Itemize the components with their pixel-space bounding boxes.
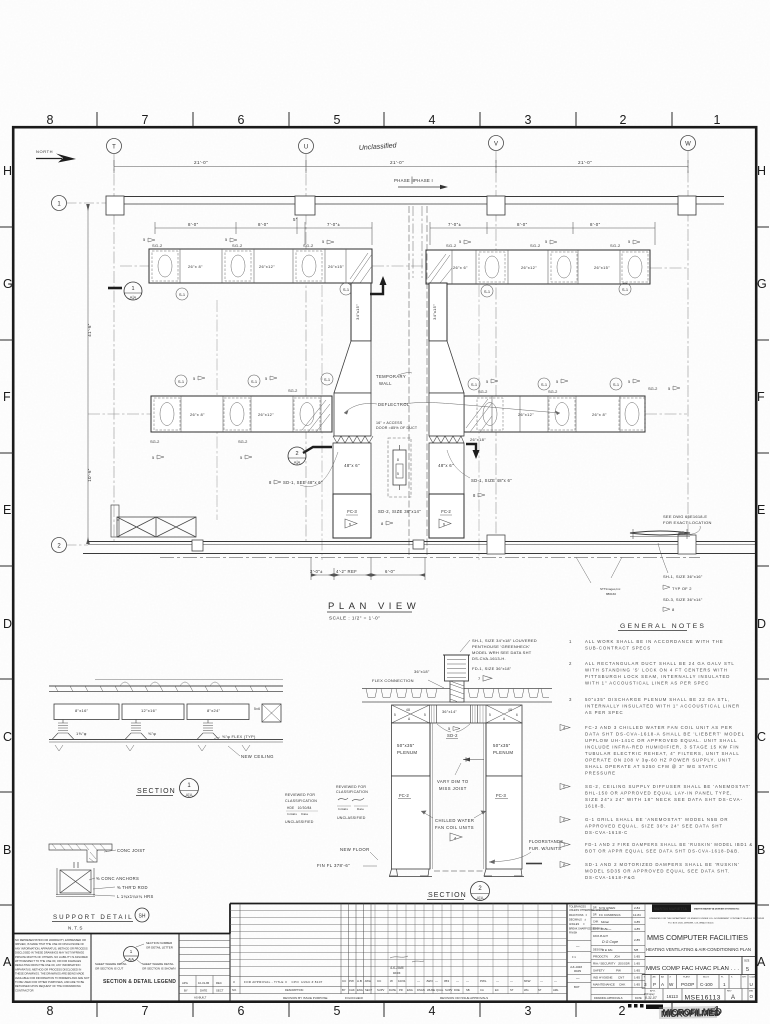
svg-text:FC CUMMINGS: FC CUMMINGS	[599, 913, 621, 917]
north arrow	[36, 149, 76, 163]
svg-text:6: 6	[238, 113, 245, 127]
svg-text:OPERATE ON 208 V 3φ-60 HZ POWE: OPERATE ON 208 V 3φ-60 HZ POWER SUPPLY. …	[585, 758, 732, 763]
svg-text:8: 8	[269, 480, 272, 485]
svg-text:SD-1, SIZE 48"x 6": SD-1, SIZE 48"x 6"	[471, 478, 512, 483]
svg-text:NORTH: NORTH	[36, 149, 53, 154]
svg-text:26"x18": 26"x18"	[470, 437, 486, 442]
svg-text:V: V	[494, 142, 498, 148]
svg-text:SG-2: SG-2	[648, 386, 658, 391]
svg-text:P.O. BOX 1505, DENVER, COLORAD: P.O. BOX 1505, DENVER, COLORADO 80201	[668, 922, 714, 925]
tiny stamp text	[600, 587, 621, 596]
access door note	[376, 421, 418, 430]
svg-text:W: W	[390, 979, 393, 983]
svg-text:26"x15": 26"x15"	[594, 265, 610, 270]
svg-text:—: —	[417, 979, 420, 983]
svg-text:DATE: DATE	[389, 988, 396, 992]
upper-left supply duct	[149, 249, 372, 283]
svg-text:SECTION: SECTION	[428, 892, 467, 899]
svg-text:1: 1	[131, 286, 134, 292]
svg-text:PLENUM: PLENUM	[397, 750, 417, 755]
svg-text:—: —	[435, 979, 438, 983]
svg-text:SCALE : 1/2" = 1'-0": SCALE : 1/2" = 1'-0"	[329, 616, 380, 621]
svg-text:1: 1	[723, 982, 726, 987]
svg-text:DS-CVA-1618-F&G: DS-CVA-1618-F&G	[585, 875, 636, 880]
GENERAL NOTES header	[618, 623, 706, 631]
svg-text:B: B	[757, 843, 765, 857]
svg-text:DISCLOSED IN THESE DRAWINGS MA: DISCLOSED IN THESE DRAWINGS MAY NOT INFR…	[15, 951, 84, 955]
note 6 flag	[560, 817, 570, 823]
svg-text:—: —	[510, 979, 513, 983]
svg-text:SD-2, SIZE 36"x14": SD-2, SIZE 36"x14"	[378, 509, 421, 514]
svg-text:1-85: 1-85	[634, 976, 640, 980]
diffusers upper-left duct	[152, 251, 322, 281]
svg-text:S-1: S-1	[484, 289, 491, 294]
svg-text:R E Mls: R E Mls	[602, 948, 613, 952]
svg-text:INTERNALLY INSULATED WITH 1" A: INTERNALLY INSULATED WITH 1" ACCOUSTICAL…	[585, 704, 740, 709]
svg-text:SG-2: SG-2	[152, 243, 163, 248]
svg-text:48: 48	[406, 708, 410, 712]
svg-text:PHASE II: PHASE II	[394, 178, 415, 183]
svg-text:SAFETY: SAFETY	[593, 969, 605, 973]
svg-text:ALL RECTANGULAR DUCT SHALL BE: ALL RECTANGULAR DUCT SHALL BE 24 GA GALV…	[585, 661, 735, 666]
section 2 cut marker in plan	[288, 447, 332, 465]
note 7 flag	[560, 842, 570, 848]
svg-text:Molan: Molan	[601, 920, 610, 924]
svg-text:ST: ST	[538, 988, 542, 992]
svg-text:REV: REV	[727, 991, 732, 993]
svg-text:FLOORSTANDS: FLOORSTANDS	[529, 839, 563, 844]
svg-text:FD-1 AND 2 FIRE DAMPERS SHALL: FD-1 AND 2 FIRE DAMPERS SHALL BE 'RUSKIN…	[585, 842, 753, 847]
svg-text:IMPLIED, IS MADE THAT THE USE: IMPLIED, IS MADE THAT THE USE OF DISCLOS…	[15, 942, 84, 946]
svg-text:A.B: A.B	[357, 979, 362, 983]
svg-text:WHSE: WHSE	[427, 988, 435, 992]
section 1 cut marker in plan	[108, 282, 142, 300]
svg-text:PITTSBURGH LOCK SEAM, INTERNAL: PITTSBURGH LOCK SEAM, INTERNALLY INSULAT…	[585, 674, 730, 679]
svg-text:3: 3	[525, 113, 532, 127]
svg-text:12-84: 12-84	[633, 913, 641, 917]
svg-text:UPFLOW UH-141C OR APPROVED EQU: UPFLOW UH-141C OR APPROVED EQUAL. UNIT S…	[585, 738, 737, 743]
svg-text:REVIEWED FOR: REVIEWED FOR	[336, 785, 366, 789]
svg-text:RIA / SECURITY: RIA / SECURITY	[593, 962, 616, 966]
grid numbers top	[47, 113, 721, 127]
svg-text:W: W	[685, 142, 691, 148]
svg-text:26"x 8": 26"x 8"	[592, 412, 607, 417]
svg-text:S-1: S-1	[613, 382, 620, 387]
svg-text:D: D	[757, 617, 766, 631]
svg-text:QUAL: QUAL	[436, 988, 444, 992]
column centerlines	[88, 151, 688, 560]
svg-text:E: E	[757, 503, 765, 517]
names column rows	[591, 911, 645, 1002]
svg-text:3-85: 3-85	[634, 920, 640, 924]
svg-text:SUPPORT DETAIL: SUPPORT DETAIL	[53, 914, 134, 921]
svg-text:26"x12": 26"x12"	[521, 265, 537, 270]
svg-text:4'-2" REF: 4'-2" REF	[336, 569, 357, 574]
svg-text:JWO: JWO	[426, 979, 433, 983]
svg-text:48"x 6": 48"x 6"	[438, 463, 454, 468]
svg-text:26"x 8": 26"x 8"	[190, 412, 205, 417]
svg-text:50"x35" DISCHARGE PLENUM SHALL: 50"x35" DISCHARGE PLENUM SHALL BE 22 GA …	[585, 697, 730, 702]
svg-text:SG-2: SG-2	[303, 243, 314, 248]
svg-text:PRESSURE: PRESSURE	[585, 771, 616, 776]
svg-text:RESULTING FROM THE USE OF, ANY: RESULTING FROM THE USE OF, ANY INFORMATI…	[15, 963, 80, 967]
svg-text:⅜ CONC ANCHORS: ⅜ CONC ANCHORS	[96, 876, 139, 881]
svg-text:W: W	[669, 982, 674, 987]
svg-text:STTImages,Inc: STTImages,Inc	[600, 587, 621, 591]
svg-text:DEFLECTROL: DEFLECTROL	[378, 402, 410, 407]
svg-text:26"x 6": 26"x 6"	[453, 265, 468, 270]
svg-text:ENG: ENG	[407, 988, 413, 992]
svg-text:S-1: S-1	[179, 292, 186, 297]
svg-text:REVISION BY ISSUE PURPOSE: REVISION BY ISSUE PURPOSE	[283, 996, 327, 1000]
svg-text:SECTION NUMBER: SECTION NUMBER	[146, 941, 172, 945]
svg-text:SD-2: SD-2	[447, 733, 458, 738]
svg-text:26"x12": 26"x12"	[258, 412, 274, 417]
svg-text:DRAWING APPROVALS: DRAWING APPROVALS	[594, 996, 623, 1000]
svg-text:DSGN: DSGN	[417, 988, 425, 992]
svg-text:BOT: BOT	[574, 985, 580, 989]
SD-1 note left	[269, 480, 323, 485]
svg-text:ENG: ENG	[593, 928, 598, 931]
svg-text:SEE DWG 65E1618-E: SEE DWG 65E1618-E	[663, 514, 707, 519]
note 5 flag	[560, 784, 570, 790]
svg-text:5": 5"	[293, 217, 298, 222]
svg-text:SUPV: SUPV	[445, 988, 453, 992]
svg-text:JDG/GDR: JDG/GDR	[618, 962, 630, 966]
svg-text:8-31-07: 8-31-07	[645, 996, 657, 1000]
svg-text:U: U	[750, 982, 753, 987]
SG-2 labels below lower-left duct	[150, 439, 248, 460]
plenum boxes	[392, 723, 523, 776]
svg-text:GENERAL NOTES: GENERAL NOTES	[620, 623, 706, 630]
svg-text:A: A	[731, 995, 735, 1001]
svg-text:CHK: CHK	[619, 983, 625, 987]
svg-text:7'-0"±: 7'-0"±	[448, 222, 461, 227]
svg-text:BY: BY	[342, 988, 346, 992]
svg-text:MISS JOIST: MISS JOIST	[439, 786, 467, 791]
svg-text:8: 8	[47, 1004, 54, 1018]
lower-left supply duct	[151, 396, 332, 432]
svg-text:WG: WG	[524, 988, 529, 992]
svg-text:THESE DRAWINGS. THE DRAWINGS A: THESE DRAWINGS. THE DRAWINGS ARE BEING M…	[15, 972, 84, 976]
svg-text:OR SECTION IS SHOWN: OR SECTION IS SHOWN	[142, 967, 175, 971]
classification stamp 1	[285, 793, 318, 824]
svg-text:5: 5	[397, 472, 399, 476]
SG-2 flag labels above upper ducts	[143, 237, 631, 248]
svg-text:5/8: 5/8	[634, 948, 639, 952]
svg-text:MODEL SD35 OR APPROVED EQUAL S: MODEL SD35 OR APPROVED EQUAL SEE DATA SH…	[585, 869, 730, 874]
svg-text:S-1: S-1	[251, 379, 258, 384]
diffusers lower-right duct	[477, 398, 645, 430]
svg-text:NO.: NO.	[232, 988, 237, 992]
svg-text:SG-2: SG-2	[610, 243, 621, 248]
svg-text:SH-1, SIZE 34"x18" LOUVERED: SH-1, SIZE 34"x18" LOUVERED	[472, 638, 537, 643]
svg-text:UNCLASSIFIED: UNCLASSIFIED	[285, 820, 314, 824]
revision entries row	[233, 979, 557, 984]
thick up arrow center top	[370, 276, 387, 294]
svg-text:MMS COMP FAC HVAC PLAN . . .: MMS COMP FAC HVAC PLAN . . .	[646, 966, 739, 972]
svg-text:SECT: SECT	[365, 988, 373, 992]
unit feet and floor	[389, 864, 542, 877]
svg-text:8: 8	[47, 113, 54, 127]
svg-text:MODEL WRH SEE DATA SHT: MODEL WRH SEE DATA SHT	[472, 650, 532, 655]
svg-text:OPERATED FOR THE DEPARTMENT OF: OPERATED FOR THE DEPARTMENT OF ENERGY UN…	[649, 917, 765, 920]
svg-text:SH: SH	[139, 914, 146, 920]
svg-text:CLASSIFICATION: CLASSIFICATION	[336, 790, 368, 794]
svg-text:NEW CEILING: NEW CEILING	[241, 754, 274, 759]
row grid circle 2	[52, 538, 67, 553]
revision header row	[232, 988, 559, 992]
svg-text:36"x14": 36"x14"	[442, 710, 457, 714]
svg-text:SHT: SHT	[742, 977, 747, 979]
svg-text:PW: PW	[349, 979, 354, 983]
note 2	[569, 661, 735, 686]
svg-text:SUB-CONTRACT SPECS: SUB-CONTRACT SPECS	[585, 646, 651, 651]
svg-text:WALL: WALL	[379, 381, 392, 386]
48x6 riser boxes	[333, 443, 464, 494]
revision table main	[230, 904, 567, 1002]
svg-text:AS PER SPEC: AS PER SPEC	[585, 710, 624, 715]
svg-text:—: —	[554, 979, 557, 983]
svg-text:H: H	[757, 164, 766, 178]
svg-text:886160: 886160	[606, 592, 616, 596]
svg-text:HDE 10/30/84: HDE 10/30/84	[287, 806, 312, 810]
svg-text:BY: BY	[184, 989, 188, 993]
svg-text:FAN COIL UNITS: FAN COIL UNITS	[435, 825, 474, 830]
fan coil unit boxes	[333, 494, 464, 538]
svg-text:SG-2: SG-2	[288, 388, 298, 393]
svg-text:PLANT: PLANT	[683, 976, 691, 979]
svg-text:C: C	[3, 730, 12, 744]
svg-text:MIN: MIN	[749, 991, 753, 993]
svg-text:C-100: C-100	[700, 982, 713, 987]
louvered penthouse	[443, 655, 470, 702]
svg-text:CONC JOIST: CONC JOIST	[117, 848, 146, 853]
svg-text:SG-2: SG-2	[548, 389, 558, 394]
svg-text:FUR. W/UNITS: FUR. W/UNITS	[529, 846, 561, 851]
svg-text:5: 5	[489, 713, 491, 717]
svg-text:6: 6	[516, 713, 518, 717]
svg-text:FC-3: FC-3	[347, 509, 357, 514]
conc joist section	[49, 844, 112, 862]
svg-text:10-31-86: 10-31-86	[198, 981, 210, 985]
svg-text:S-1: S-1	[622, 287, 629, 292]
svg-text:⅜ THR'D ROD: ⅜ THR'D ROD	[117, 885, 148, 890]
svg-text:B: B	[3, 843, 11, 857]
SD-1 note right	[471, 478, 512, 498]
svg-text:16" × ACCESS: 16" × ACCESS	[376, 421, 403, 425]
svg-text:1⅝"φ: 1⅝"φ	[76, 731, 87, 736]
top dimension line 21'-0" spans	[114, 160, 688, 173]
svg-text:21'-0": 21'-0"	[194, 160, 208, 165]
svg-text:CA: CA	[480, 988, 484, 992]
hanger rod and angle brace	[56, 862, 95, 897]
svg-text:4: 4	[429, 1004, 436, 1018]
svg-text:8: 8	[397, 458, 399, 462]
svg-text:SG-2: SG-2	[478, 389, 488, 394]
svg-text:⅝"φ: ⅝"φ	[148, 731, 156, 736]
support detail title	[52, 908, 149, 931]
svg-text:S-1: S-1	[471, 382, 478, 387]
svg-text:26"x12": 26"x12"	[518, 412, 534, 417]
svg-text:Initials: Initials	[338, 807, 348, 811]
svg-text:6'-0": 6'-0"	[385, 569, 395, 574]
unit top filter band	[392, 705, 523, 723]
small cells row	[642, 975, 755, 989]
temporary wall label	[376, 374, 406, 386]
svg-text:SD-1 AND 2 MOTORIZED DAMPERS S: SD-1 AND 2 MOTORIZED DAMPERS SHALL BE 'R…	[585, 862, 740, 867]
thick down arrow right of center	[466, 444, 480, 459]
svg-text:MARTIN MARIETTA: MARTIN MARIETTA	[654, 907, 687, 911]
grid letters left	[3, 164, 13, 969]
SD-2 label under band	[437, 724, 470, 732]
svg-text:12"x16": 12"x16"	[141, 708, 157, 713]
martin marietta logo	[649, 905, 765, 925]
svg-text:50"x35": 50"x35"	[397, 743, 415, 748]
bottom id row	[663, 989, 748, 1002]
fan coil boxes	[392, 776, 523, 869]
svg-text:8: 8	[473, 493, 476, 498]
svg-text:MMS COMPUTER FACILITIES: MMS COMPUTER FACILITIES	[647, 935, 748, 942]
svg-text:SHALL OPERATE AT 5250 CFM @ 3": SHALL OPERATE AT 5250 CFM @ 3" WG STATIC	[585, 764, 718, 769]
svg-text:—: —	[466, 979, 469, 983]
chilled water labels	[435, 818, 474, 830]
existing equipment crossed box	[111, 505, 196, 537]
svg-text:REVIEWED FOR: REVIEWED FOR	[285, 793, 315, 797]
roof joist deck	[362, 689, 552, 703]
note 1	[569, 639, 724, 651]
classification stamp 2	[336, 785, 368, 820]
svg-text:CHK: CHK	[593, 921, 599, 924]
svg-text:WITH RESPECT TO THE USE OF, OR: WITH RESPECT TO THE USE OF, OR FOR DAMAG…	[15, 959, 81, 963]
svg-text:SG-2: SG-2	[238, 439, 248, 444]
svg-text:1-85: 1-85	[634, 969, 640, 973]
svg-text:2-84: 2-84	[634, 906, 640, 910]
S-1 marker circles lower rows	[175, 373, 622, 390]
svg-text:L 1¼x1¼x¼ HRS: L 1¼x1¼x¼ HRS	[117, 894, 154, 899]
svg-text:FC-2: FC-2	[399, 793, 409, 798]
svg-text:SD-3, SIZE 36"x14": SD-3, SIZE 36"x14"	[663, 597, 703, 602]
svg-text:DS-CVA-1613-H.: DS-CVA-1613-H.	[472, 656, 506, 661]
svg-text:7: 7	[142, 113, 149, 127]
svg-text:REC: REC	[216, 981, 222, 985]
svg-text:3'-0"±: 3'-0"±	[310, 569, 323, 574]
see dwg note	[663, 514, 712, 525]
note 8 flag	[560, 862, 570, 868]
svg-text:TUBULAR ELECTRIC REHEAT, 4" FI: TUBULAR ELECTRIC REHEAT, 4" FILTERS, UNI…	[585, 751, 740, 756]
svg-text:TYP OF 2: TYP OF 2	[672, 586, 692, 591]
svg-text:PRIVATE RIGHTS OF OTHERS. NO L: PRIVATE RIGHTS OF OTHERS. NO LIABILITY I…	[15, 955, 88, 959]
svg-text:4-6-1946: 4-6-1946	[390, 966, 404, 970]
svg-text:8'-0": 8'-0"	[517, 222, 528, 227]
svg-text:50"x35": 50"x35"	[493, 743, 511, 748]
svg-text:CONTRACTOR: CONTRACTOR	[15, 988, 34, 992]
svg-text:8'-0": 8'-0"	[590, 222, 601, 227]
floorstands label	[529, 839, 563, 851]
svg-text:3: 3	[525, 1004, 532, 1018]
svg-text:JGA: JGA	[614, 955, 620, 959]
svg-text:A: A	[3, 955, 12, 969]
svg-text:—: —	[540, 979, 543, 983]
svg-text:DATE: DATE	[200, 989, 207, 993]
svg-text:SECT: SECT	[216, 989, 224, 993]
svg-text:T: T	[112, 145, 116, 151]
S-1 marker circles upper row	[176, 283, 631, 300]
svg-text:A: A	[757, 955, 766, 969]
svg-text:CLASSIFICATION: CLASSIFICATION	[285, 799, 317, 803]
svg-text:SD-1, SEE 48"x 6": SD-1, SEE 48"x 6"	[283, 480, 323, 485]
svg-text:F: F	[757, 390, 765, 404]
svg-text:48"x 6": 48"x 6"	[344, 463, 360, 468]
svg-text:3: 3	[644, 982, 647, 987]
svg-text:5: 5	[334, 113, 341, 127]
svg-text:26"x15": 26"x15"	[328, 264, 344, 269]
svg-text:D: D	[3, 617, 12, 631]
svg-text:PWL: PWL	[480, 979, 487, 983]
svg-text:AML: AML	[553, 988, 559, 992]
svg-text:G-1 GRILL SHALL BE 'ANEMOSTAT': G-1 GRILL SHALL BE 'ANEMOSTAT' MODEL N5B…	[585, 817, 728, 822]
svg-text:CHILLED WATER: CHILLED WATER	[435, 818, 474, 823]
upper duct dimension line left	[155, 217, 372, 245]
svg-text:053: 053	[444, 979, 449, 983]
svg-text:ALL WORK SHALL BE IN ACCORDANC: ALL WORK SHALL BE IN ACCORDANCE WITH THE	[585, 639, 724, 644]
svg-text:Initials Date: Initials Date	[287, 812, 309, 816]
svg-text:O: O	[750, 994, 754, 999]
revision table left sub-block	[179, 941, 230, 995]
svg-text:—: —	[456, 979, 459, 983]
svg-text:S-1: S-1	[324, 377, 331, 382]
svg-text:PHASE I: PHASE I	[414, 178, 433, 183]
svg-text:ANGLES ±: ANGLES ±	[569, 923, 585, 926]
svg-text:AS-BUILT: AS-BUILT	[194, 996, 207, 1000]
svg-text:FOR EXACT LOCATION: FOR EXACT LOCATION	[663, 520, 712, 525]
svg-text:6KW: 6KW	[524, 979, 531, 983]
SD-2 damper center	[388, 438, 411, 497]
svg-text:SG-2, CEILING SUPPLY DIFFUSER: SG-2, CEILING SUPPLY DIFFUSER SHALL BE '…	[585, 784, 751, 789]
svg-text:8"x16": 8"x16"	[75, 708, 89, 713]
svg-text:ANY INFORMATION, APPARATUS, ME: ANY INFORMATION, APPARATUS, METHOD OR PR…	[15, 946, 88, 950]
svg-text:FOLIO/CHECK: FOLIO/CHECK	[345, 996, 363, 1000]
section 2 title	[427, 882, 490, 901]
flex connection hatch bands	[333, 436, 464, 443]
svg-text:MFRS: MFRS	[393, 971, 401, 975]
microfilm stamp	[628, 1004, 722, 1019]
svg-text:WITH STANDING 'S' LOCK ON 4 FT: WITH STANDING 'S' LOCK ON 4 FT CENTERS W…	[585, 668, 728, 673]
section 1 title	[136, 779, 199, 798]
svg-text:1: 1	[714, 113, 721, 127]
svg-text:4-85: 4-85	[634, 927, 640, 931]
svg-text:A|A: A|A	[128, 958, 134, 962]
svg-text:APPARATUS, METHOD OR PROCESS D: APPARATUS, METHOD OR PROCESS DISCLOSED I…	[15, 967, 81, 971]
svg-text:21'-0": 21'-0"	[390, 160, 404, 165]
svg-text:DATA SHT DS-CVA-1618-A SHALL B: DATA SHT DS-CVA-1618-A SHALL BE 'LIEBERT…	[585, 732, 745, 737]
svg-text:26"x12": 26"x12"	[259, 264, 275, 269]
svg-text:SHEET WHERE DETAIL: SHEET WHERE DETAIL	[142, 962, 174, 966]
svg-text:N.T.S: N.T.S	[68, 926, 83, 931]
svg-text:FIN FL 378'-6": FIN FL 378'-6"	[317, 863, 350, 868]
svg-text:4: 4	[429, 113, 436, 127]
note 3	[569, 697, 740, 715]
PLAN VIEW title	[327, 601, 420, 621]
svg-text:S-1: S-1	[178, 379, 185, 384]
svg-text:MFRS: MFRS	[574, 970, 581, 973]
svg-text:REVISION OR ISSUE APPROVALS: REVISION OR ISSUE APPROVALS	[440, 996, 488, 1000]
svg-text:TO BE USED FOR OTHER PURPOSES,: TO BE USED FOR OTHER PURPOSES, AND ARE T…	[15, 980, 84, 984]
center duct space	[430, 723, 486, 869]
svg-text:SG-2: SG-2	[446, 243, 457, 248]
svg-text:34"x15": 34"x15"	[355, 304, 360, 320]
svg-text:DR: DR	[593, 907, 597, 910]
